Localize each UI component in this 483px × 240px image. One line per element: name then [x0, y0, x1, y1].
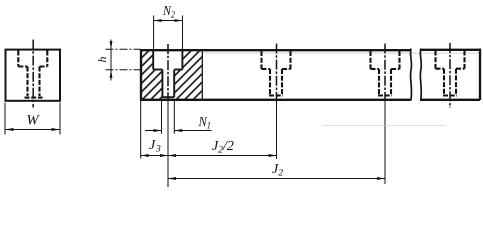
slot2 centerline extension: [276, 99, 278, 159]
bar break line (right end of bar): [410, 49, 411, 101]
hidden T-slot 2 (dashed): [262, 51, 291, 96]
slot 3 centerline: [384, 44, 386, 100]
right piece outline: [420, 49, 480, 101]
bar outline: [140, 49, 411, 100]
svg-text:J2/2: J2/2: [212, 139, 234, 156]
right piece break edge: [420, 49, 421, 101]
dimension W: [5, 103, 60, 135]
bar hatching: [141, 50, 202, 99]
sectioned T-slot profile (slot 1): [153, 50, 182, 97]
N1 extension lines: [145, 101, 212, 134]
hidden T-slot 3 (dashed): [371, 51, 400, 96]
end view centerline: [32, 40, 34, 108]
slot1 centerline extension: [167, 99, 169, 187]
scan streak: [322, 125, 446, 127]
svg-text:h: h: [95, 57, 109, 63]
slot3 centerline extension: [384, 99, 386, 184]
end view outline: [6, 50, 61, 101]
slot 2 centerline: [276, 44, 278, 100]
N2 extension lines: [154, 16, 183, 50]
svg-text:W: W: [27, 113, 41, 129]
right piece hidden T-slot (dashed): [436, 51, 465, 96]
J3 extension and dimension line: [141, 101, 168, 159]
right piece centerline: [449, 43, 451, 108]
h extension lines: [106, 40, 141, 81]
end view hidden T-slot (dashed): [18, 51, 47, 98]
scan shadow under top edge: [203, 52, 480, 54]
slot 1 centerline: [167, 44, 169, 99]
section boundary: [201, 50, 203, 99]
